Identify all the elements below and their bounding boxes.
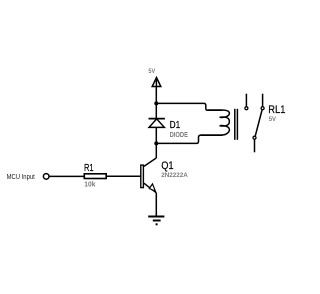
relay common pin circle <box>253 136 256 139</box>
svg-text:DIODE: DIODE <box>170 130 189 139</box>
ground bar 1 <box>148 216 164 218</box>
svg-text:5V: 5V <box>148 68 155 75</box>
ground bar 2 <box>153 220 161 222</box>
relay RL1 coil <box>201 110 230 135</box>
relay core line 2 <box>236 109 238 140</box>
resistor R1 body <box>84 174 106 179</box>
diode D1 triangle <box>149 119 164 128</box>
transistor Q1 emitter lead <box>144 183 156 193</box>
transistor Q1 emitter arrowhead <box>149 184 155 191</box>
wire emitter to ground <box>155 193 157 217</box>
relay core line 1 <box>234 109 236 140</box>
svg-text:Q1: Q1 <box>161 160 173 172</box>
ground bar 3 <box>156 223 158 225</box>
wire node B to relay coil bottom <box>156 135 222 143</box>
power symbol 5V arrow <box>152 78 161 87</box>
wire R1 to Q1 base <box>107 175 141 177</box>
svg-text:5V: 5V <box>269 116 277 123</box>
svg-text:2N2222A: 2N2222A <box>161 172 188 179</box>
relay contact pin 2 wire <box>262 94 264 106</box>
terminal MCU input circle <box>43 174 49 180</box>
wire node A to relay coil top <box>156 103 222 110</box>
wire 5V arrow to node A <box>155 87 157 104</box>
relay armature switch lever <box>255 110 262 136</box>
relay contact pin 1 circle <box>245 107 248 110</box>
wire diode top: node A down to cathode bar <box>155 103 157 118</box>
diode D1 cathode bar <box>149 118 165 120</box>
relay contact pin 1 wire <box>245 94 247 106</box>
wire terminal to R1 <box>49 175 83 177</box>
node A junction dot <box>154 101 158 105</box>
svg-text:RL1: RL1 <box>268 104 285 116</box>
svg-text:R1: R1 <box>84 162 94 174</box>
transistor Q1 base bar <box>141 165 144 188</box>
node B junction dot <box>154 141 158 145</box>
svg-text:MCU Input: MCU Input <box>7 174 35 181</box>
svg-text:10k: 10k <box>84 182 95 189</box>
relay contact pin 2 circle <box>261 107 264 110</box>
transistor Q1 collector lead <box>144 158 156 166</box>
wire diode anode to node B <box>155 127 157 143</box>
relay common pin wire <box>254 140 256 153</box>
wire node B down to collector <box>155 143 157 158</box>
